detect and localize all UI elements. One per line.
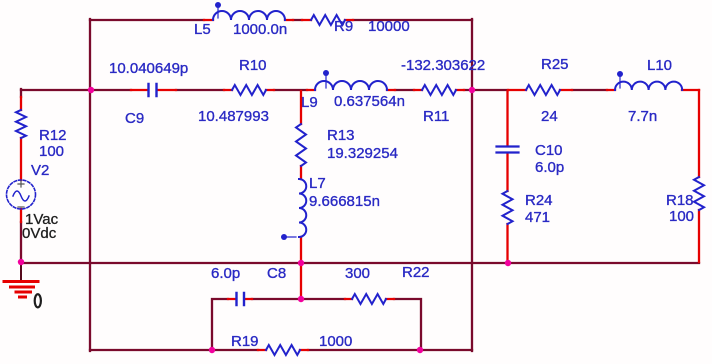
inductor L5 polarity dot	[215, 2, 221, 18]
svg-text:10.040649p: 10.040649p	[109, 60, 188, 77]
node junction dot R24 bottom	[505, 260, 511, 266]
resistor R19	[266, 345, 300, 355]
wire C8 row	[212, 299, 421, 350]
wire top net	[90, 19, 472, 21]
inductor L9	[315, 81, 387, 90]
inductor L9 pins	[307, 89, 395, 91]
resistor R11 pins	[414, 89, 464, 91]
resistor R22 pins	[345, 298, 394, 300]
svg-text:100: 100	[39, 143, 64, 160]
svg-text:1000.0n: 1000.0n	[233, 21, 287, 38]
svg-text:10000: 10000	[368, 18, 410, 35]
svg-text:L7: L7	[309, 175, 326, 192]
resistor R19 pins	[258, 349, 308, 351]
node junction dot bottom left	[209, 347, 215, 353]
node junction dot C8 tap	[298, 296, 304, 302]
capacitor C9	[149, 84, 157, 96]
resistor R9 pins	[302, 19, 353, 21]
svg-text:R18: R18	[666, 192, 694, 209]
wire mid column pins	[300, 91, 302, 299]
svg-text:R19: R19	[231, 333, 259, 350]
inductor L10	[615, 82, 682, 90]
svg-text:9.666815n: 9.666815n	[309, 193, 380, 210]
svg-text:19.329254: 19.329254	[327, 145, 398, 162]
inductor L10 pins	[607, 89, 699, 91]
svg-text:300: 300	[345, 265, 370, 282]
svg-text:R25: R25	[541, 56, 569, 73]
svg-text:10.487993: 10.487993	[198, 108, 269, 125]
svg-text:R11: R11	[423, 108, 449, 125]
svg-text:0.637564n: 0.637564n	[334, 93, 405, 110]
resistor R22	[352, 294, 386, 304]
node junction dot bottom right	[417, 347, 423, 353]
resistor R10 pins	[224, 89, 274, 91]
wire C10 column pins	[506, 91, 508, 262]
node junction dot V2 ground	[18, 259, 24, 265]
node junction dot middle-left	[88, 87, 94, 93]
svg-text:100: 100	[669, 208, 694, 225]
node junction dot R11 output	[469, 87, 475, 93]
svg-text:24: 24	[541, 108, 558, 125]
inductor L9 polarity dot	[323, 70, 329, 88]
svg-text:R9: R9	[334, 18, 353, 35]
svg-text:0Vdc: 0Vdc	[22, 225, 57, 242]
inductor L7 polarity dot	[281, 234, 296, 240]
svg-text:C9: C9	[125, 110, 144, 127]
capacitor C9 pins	[131, 89, 176, 91]
wire right outer vertical	[471, 19, 473, 351]
svg-text:-132.303622: -132.303622	[401, 57, 485, 74]
svg-text:R10: R10	[239, 57, 267, 74]
resistor R24	[503, 191, 513, 224]
inductor L5	[213, 11, 285, 20]
svg-text:L10: L10	[647, 57, 672, 74]
svg-text:6.0p: 6.0p	[535, 159, 564, 176]
resistor R12 pins	[20, 97, 22, 222]
resistor R9	[311, 15, 345, 25]
svg-text:R22: R22	[402, 264, 430, 281]
ground node 0 label	[35, 294, 41, 307]
resistor R11	[422, 85, 456, 95]
resistor R18	[694, 177, 704, 210]
ground	[4, 263, 38, 297]
wire bottom net	[90, 349, 472, 351]
svg-text:R24: R24	[525, 192, 553, 209]
resistor R25 pins	[508, 89, 572, 91]
svg-text:L5: L5	[194, 21, 211, 38]
source V2 plus mark	[18, 181, 24, 187]
node junction dot L7 bottom	[298, 260, 304, 266]
resistor R12	[16, 110, 26, 138]
source V2	[7, 180, 36, 209]
inductor L7	[299, 179, 306, 237]
svg-text:C10: C10	[535, 142, 563, 159]
wire left column maroon parts	[20, 89, 22, 262]
svg-text:1000: 1000	[319, 333, 352, 350]
wire middle horizontal net	[21, 89, 607, 91]
inductor L10 polarity dot	[617, 71, 623, 88]
wire ground rail	[21, 262, 699, 264]
capacitor C8	[237, 293, 245, 305]
capacitor C8 pins	[228, 298, 252, 300]
capacitor C10	[497, 147, 519, 153]
svg-text:L9: L9	[301, 94, 318, 111]
wire right column pins	[698, 90, 700, 262]
svg-text:R13: R13	[327, 127, 355, 144]
svg-text:6.0p: 6.0p	[211, 265, 240, 282]
svg-text:471: 471	[525, 209, 550, 226]
resistor R13	[296, 124, 306, 166]
wire left outer vertical	[89, 19, 91, 351]
resistor R25	[526, 85, 560, 95]
svg-text:R12: R12	[39, 127, 67, 144]
source V2 minus mark	[18, 206, 24, 208]
inductor L5 pins	[204, 19, 293, 21]
resistor R10	[232, 85, 266, 95]
svg-text:C8: C8	[267, 265, 286, 282]
svg-text:7.7n: 7.7n	[628, 108, 657, 125]
svg-text:V2: V2	[31, 162, 49, 179]
